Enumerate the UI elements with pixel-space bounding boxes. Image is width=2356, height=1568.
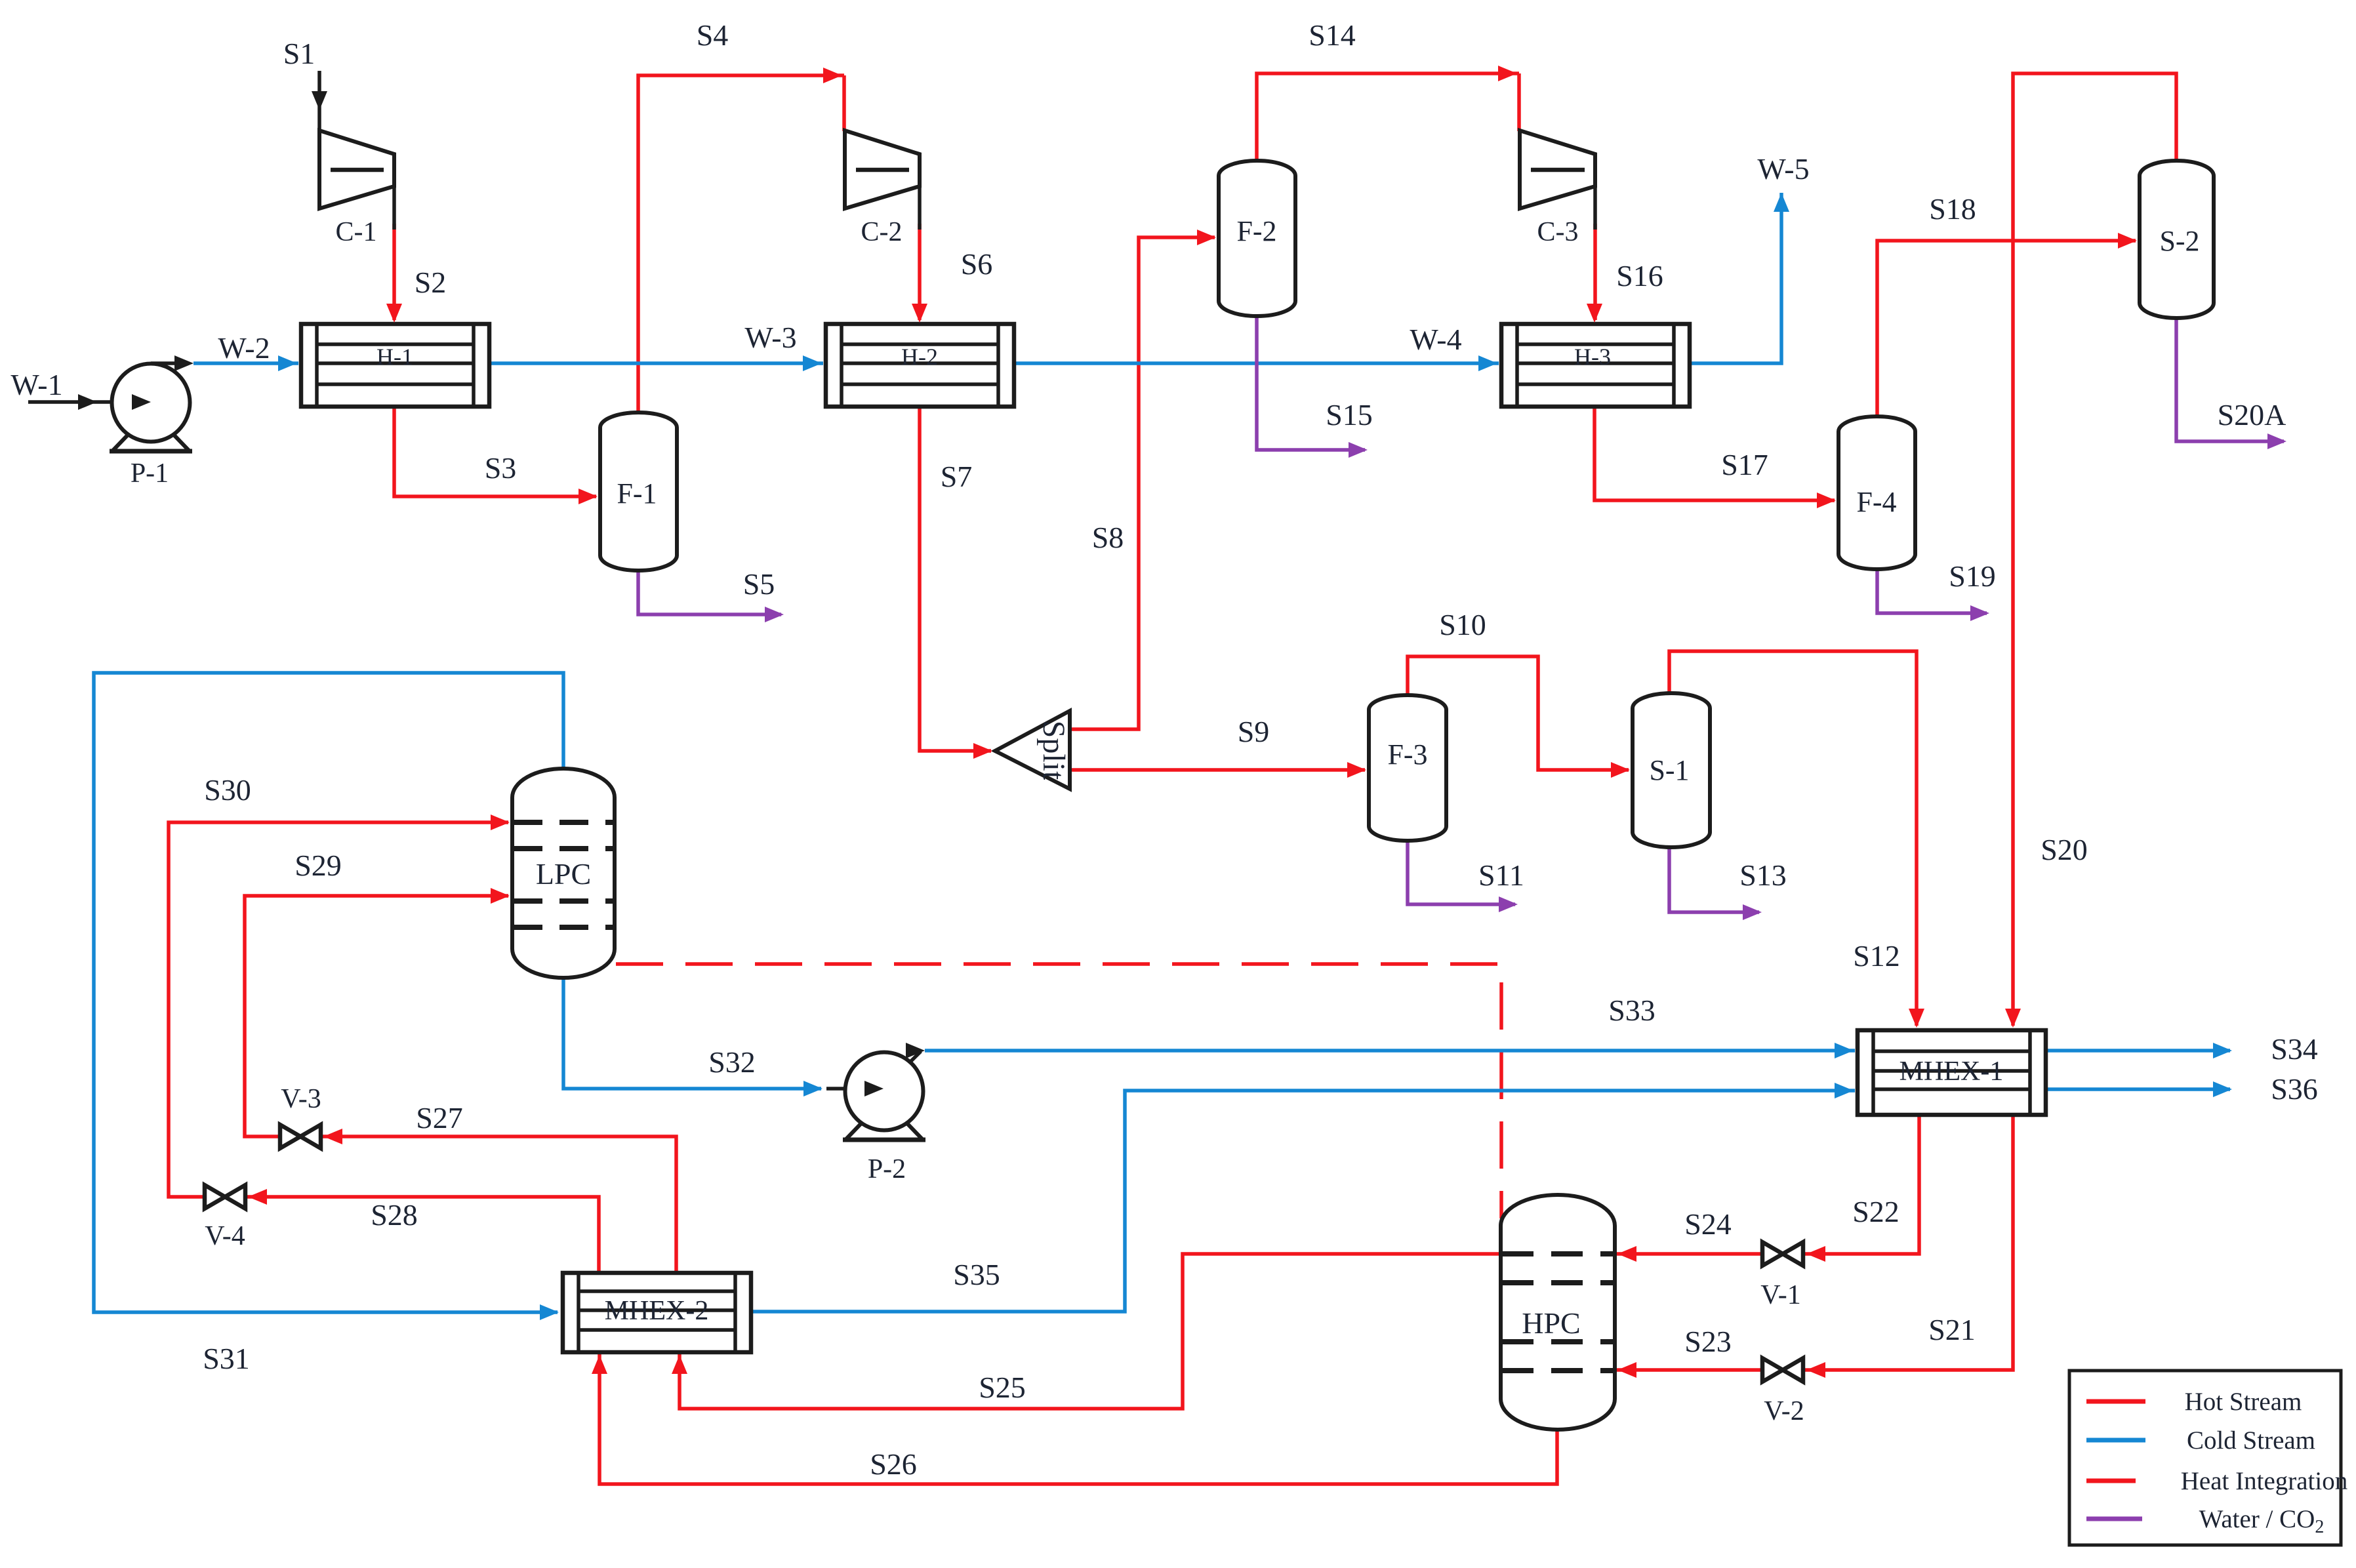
svg-text:S20: S20: [2041, 833, 2088, 866]
svg-text:C-2: C-2: [861, 217, 903, 247]
svg-text:S28: S28: [371, 1198, 418, 1232]
svg-text:MHEX-1: MHEX-1: [1899, 1056, 2004, 1087]
svg-text:S15: S15: [1326, 398, 1373, 432]
svg-text:S31: S31: [203, 1342, 250, 1375]
svg-text:P-1: P-1: [131, 458, 169, 489]
svg-text:S35: S35: [953, 1258, 1000, 1291]
svg-text:H-1: H-1: [376, 344, 413, 370]
svg-text:S27: S27: [416, 1101, 463, 1135]
svg-text:S-2: S-2: [2159, 225, 2199, 257]
svg-text:S12: S12: [1853, 939, 1900, 973]
svg-text:S17: S17: [1721, 448, 1768, 481]
svg-text:S7: S7: [941, 460, 973, 493]
svg-text:V-3: V-3: [281, 1084, 321, 1114]
svg-text:S1: S1: [283, 37, 315, 70]
svg-text:Split: Split: [1036, 721, 1071, 780]
svg-text:F-2: F-2: [1236, 215, 1276, 247]
svg-text:V-4: V-4: [205, 1221, 245, 1251]
svg-text:S14: S14: [1309, 18, 1356, 52]
svg-text:S25: S25: [979, 1371, 1026, 1404]
svg-text:S34: S34: [2271, 1032, 2318, 1066]
svg-text:Cold Stream: Cold Stream: [2187, 1426, 2315, 1455]
svg-text:Water / CO2: Water / CO2: [2199, 1505, 2325, 1537]
svg-text:C-3: C-3: [1537, 217, 1579, 247]
svg-text:S4: S4: [697, 18, 729, 52]
svg-text:LPC: LPC: [536, 857, 591, 891]
svg-text:S5: S5: [743, 567, 775, 601]
svg-text:V-2: V-2: [1764, 1396, 1804, 1426]
svg-text:S23: S23: [1684, 1325, 1732, 1358]
svg-text:S22: S22: [1852, 1195, 1899, 1228]
svg-text:W-1: W-1: [10, 368, 62, 401]
svg-text:S29: S29: [294, 849, 342, 882]
svg-text:Hot Stream: Hot Stream: [2185, 1388, 2302, 1416]
svg-text:HPC: HPC: [1522, 1306, 1580, 1340]
svg-text:H-2: H-2: [901, 344, 938, 370]
svg-text:S11: S11: [1478, 858, 1524, 892]
svg-text:S8: S8: [1092, 521, 1124, 554]
svg-text:S16: S16: [1616, 259, 1663, 292]
svg-text:S6: S6: [961, 247, 993, 281]
svg-text:S2: S2: [415, 266, 447, 299]
svg-text:F-4: F-4: [1856, 486, 1896, 518]
svg-text:S33: S33: [1608, 994, 1655, 1027]
svg-text:W-2: W-2: [218, 331, 270, 365]
svg-text:H-3: H-3: [1574, 344, 1611, 370]
svg-text:P-2: P-2: [868, 1154, 906, 1184]
svg-text:S3: S3: [485, 451, 517, 485]
svg-text:S-1: S-1: [1649, 754, 1689, 786]
svg-text:F-3: F-3: [1387, 738, 1427, 771]
svg-text:S30: S30: [204, 773, 251, 807]
svg-text:S32: S32: [708, 1045, 756, 1079]
svg-text:F-1: F-1: [617, 477, 657, 510]
svg-text:S10: S10: [1439, 608, 1486, 641]
svg-text:W-3: W-3: [744, 321, 796, 354]
svg-text:Heat Integration: Heat Integration: [2181, 1467, 2347, 1495]
svg-text:S20A: S20A: [2218, 398, 2286, 432]
svg-text:MHEX-2: MHEX-2: [605, 1296, 709, 1326]
svg-text:C-1: C-1: [336, 217, 377, 247]
svg-text:S21: S21: [1928, 1313, 1976, 1346]
svg-text:W-5: W-5: [1757, 152, 1809, 186]
svg-text:S19: S19: [1949, 559, 1996, 593]
svg-text:S26: S26: [870, 1447, 917, 1481]
svg-text:S13: S13: [1739, 858, 1787, 892]
svg-text:S9: S9: [1238, 715, 1270, 748]
svg-text:W-4: W-4: [1410, 323, 1461, 356]
svg-text:V-1: V-1: [1760, 1280, 1800, 1310]
svg-text:S36: S36: [2271, 1072, 2318, 1106]
svg-text:S24: S24: [1684, 1207, 1732, 1241]
svg-text:S18: S18: [1929, 192, 1976, 226]
